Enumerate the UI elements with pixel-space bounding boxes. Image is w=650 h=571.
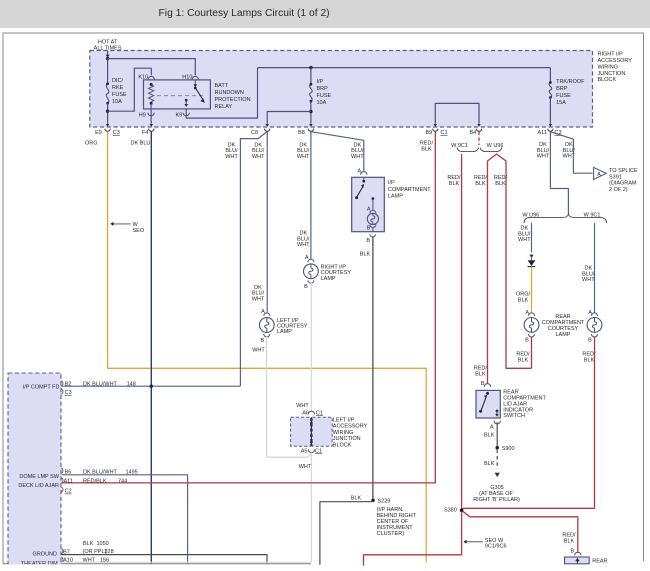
svg-text:BLK: BLK [449, 181, 460, 187]
svg-text:10A: 10A [112, 99, 122, 105]
svg-text:744: 744 [118, 479, 127, 485]
svg-text:B: B [304, 284, 308, 290]
svg-text:SWITCH: SWITCH [503, 413, 525, 419]
svg-text:K9: K9 [175, 112, 182, 118]
svg-text:JUNCTION: JUNCTION [333, 436, 361, 442]
svg-text:BLOCK: BLOCK [598, 77, 617, 83]
svg-text:RIGHT 'B' PILLAR): RIGHT 'B' PILLAR) [473, 497, 520, 503]
svg-text:ORG: ORG [85, 140, 98, 146]
svg-text:E9: E9 [95, 130, 102, 136]
svg-text:LAMP: LAMP [388, 194, 403, 200]
svg-text:WHT: WHT [537, 154, 550, 160]
svg-text:Fig 1: Courtesy Lamps Circuit: Fig 1: Courtesy Lamps Circuit (1 of 2) [159, 8, 330, 19]
svg-text:ACCESSORY: ACCESSORY [598, 58, 633, 64]
svg-text:C1: C1 [315, 448, 322, 454]
svg-text:BLK: BLK [351, 495, 362, 501]
svg-text:15A: 15A [556, 100, 566, 106]
svg-text:BLK: BLK [83, 541, 94, 547]
svg-text:GROUND: GROUND [33, 552, 57, 558]
svg-text:A11: A11 [538, 130, 547, 136]
svg-text:S391: S391 [609, 174, 622, 180]
svg-text:WHT: WHT [296, 403, 309, 409]
svg-text:ACCESSORY: ACCESSORY [333, 424, 368, 430]
svg-text:H10: H10 [182, 75, 192, 81]
svg-text:DK BLU: DK BLU [131, 140, 151, 146]
svg-text:WIRING: WIRING [333, 430, 353, 436]
svg-text:(DIAGRAM: (DIAGRAM [609, 181, 637, 187]
svg-text:W U96: W U96 [522, 212, 539, 218]
svg-text:BLK: BLK [484, 461, 495, 467]
svg-text:TRK/ROOF: TRK/ROOF [556, 79, 585, 85]
svg-text:WHT: WHT [225, 154, 238, 160]
svg-text:FUSE: FUSE [317, 93, 332, 99]
svg-text:9C1/9C6: 9C1/9C6 [485, 544, 507, 550]
svg-text:C3: C3 [113, 130, 120, 136]
svg-text:BLK: BLK [475, 371, 486, 377]
svg-text:WHT: WHT [297, 154, 310, 160]
svg-text:BLOCK: BLOCK [333, 442, 352, 448]
svg-text:H9: H9 [139, 112, 146, 118]
svg-text:JUNCTION: JUNCTION [598, 71, 626, 77]
svg-text:S229: S229 [378, 499, 391, 505]
svg-text:PROTECTION: PROTECTION [215, 97, 251, 103]
svg-text:BRP: BRP [556, 86, 568, 92]
svg-text:A11: A11 [64, 479, 73, 485]
svg-text:1050: 1050 [97, 541, 109, 547]
svg-text:WHT: WHT [299, 464, 312, 470]
svg-text:CLUSTER): CLUSTER) [377, 531, 405, 537]
svg-text:K10: K10 [138, 75, 148, 81]
svg-text:DIC/: DIC/ [112, 78, 123, 84]
svg-text:BLK: BLK [518, 297, 529, 303]
svg-text:BLK: BLK [421, 147, 432, 153]
svg-text:B: B [571, 549, 575, 555]
svg-text:B: B [367, 225, 371, 231]
svg-text:I/P: I/P [388, 180, 395, 186]
svg-text:BLK: BLK [518, 357, 529, 363]
svg-text:DECK LID AJAR: DECK LID AJAR [18, 483, 59, 489]
svg-text:RED/BLK: RED/BLK [83, 479, 107, 485]
svg-text:LAMP: LAMP [321, 276, 336, 282]
svg-text:WHT: WHT [252, 297, 265, 303]
svg-text:I/P COMPT FD: I/P COMPT FD [23, 385, 60, 391]
svg-text:W 9C1: W 9C1 [584, 212, 601, 218]
svg-text:B4: B4 [469, 130, 476, 136]
svg-text:BLK: BLK [475, 181, 486, 187]
svg-text:C1: C1 [441, 130, 448, 136]
svg-text:LEFT I/P: LEFT I/P [333, 417, 355, 423]
svg-text:C1: C1 [316, 410, 323, 416]
svg-text:LAMP: LAMP [277, 329, 292, 335]
svg-text:BLK: BLK [564, 539, 575, 545]
svg-text:WIRING: WIRING [598, 64, 618, 70]
svg-text:REAR: REAR [592, 558, 607, 564]
svg-text:BRP: BRP [317, 86, 329, 92]
svg-text:WHT: WHT [582, 277, 595, 283]
svg-text:A5: A5 [301, 448, 308, 454]
svg-text:B: B [261, 338, 265, 344]
svg-text:B: B [366, 238, 370, 244]
svg-text:A: A [490, 424, 494, 430]
svg-text:WHT: WHT [297, 242, 310, 248]
svg-text:RUNDOWN: RUNDOWN [215, 90, 244, 96]
svg-text:LAMP: LAMP [556, 332, 571, 338]
svg-text:WHT: WHT [518, 237, 531, 243]
svg-text:10A: 10A [317, 100, 327, 106]
svg-text:SEO: SEO [133, 228, 145, 234]
svg-text:W 9C1: W 9C1 [451, 143, 468, 149]
svg-text:DOME LMP SW: DOME LMP SW [19, 474, 59, 480]
svg-text:C8: C8 [251, 130, 258, 136]
svg-text:WHT: WHT [252, 348, 265, 354]
svg-text:S380: S380 [444, 507, 457, 513]
svg-text:COMPARTMENT: COMPARTMENT [388, 187, 431, 193]
svg-text:A: A [597, 172, 601, 178]
svg-text:FUSE: FUSE [556, 93, 571, 99]
svg-text:BLK: BLK [484, 432, 495, 438]
svg-text:RIGHT I/P: RIGHT I/P [598, 51, 624, 57]
svg-text:BATT: BATT [215, 83, 229, 89]
svg-text:F4: F4 [142, 130, 148, 136]
svg-text:WHT: WHT [351, 154, 364, 160]
svg-text:S900: S900 [502, 446, 515, 452]
svg-text:FUSE: FUSE [112, 92, 127, 98]
svg-text:2 OF 2): 2 OF 2) [609, 187, 628, 193]
svg-text:BLK: BLK [495, 181, 506, 187]
svg-text:B: B [588, 338, 592, 344]
svg-text:WHT: WHT [252, 154, 265, 160]
svg-text:TO SPLICE: TO SPLICE [609, 168, 638, 174]
svg-text:BLK: BLK [584, 357, 595, 363]
svg-text:B9: B9 [425, 130, 432, 136]
svg-text:C3: C3 [65, 390, 72, 396]
svg-text:BLK: BLK [360, 252, 371, 258]
svg-text:I/P: I/P [317, 79, 324, 85]
svg-text:B: B [525, 338, 529, 344]
svg-text:B8: B8 [298, 130, 305, 136]
svg-text:C2: C2 [65, 489, 72, 495]
svg-text:W U96: W U96 [487, 143, 504, 149]
svg-text:RELAY: RELAY [215, 104, 233, 110]
svg-text:RKE: RKE [112, 85, 124, 91]
svg-text:A6: A6 [302, 410, 309, 416]
